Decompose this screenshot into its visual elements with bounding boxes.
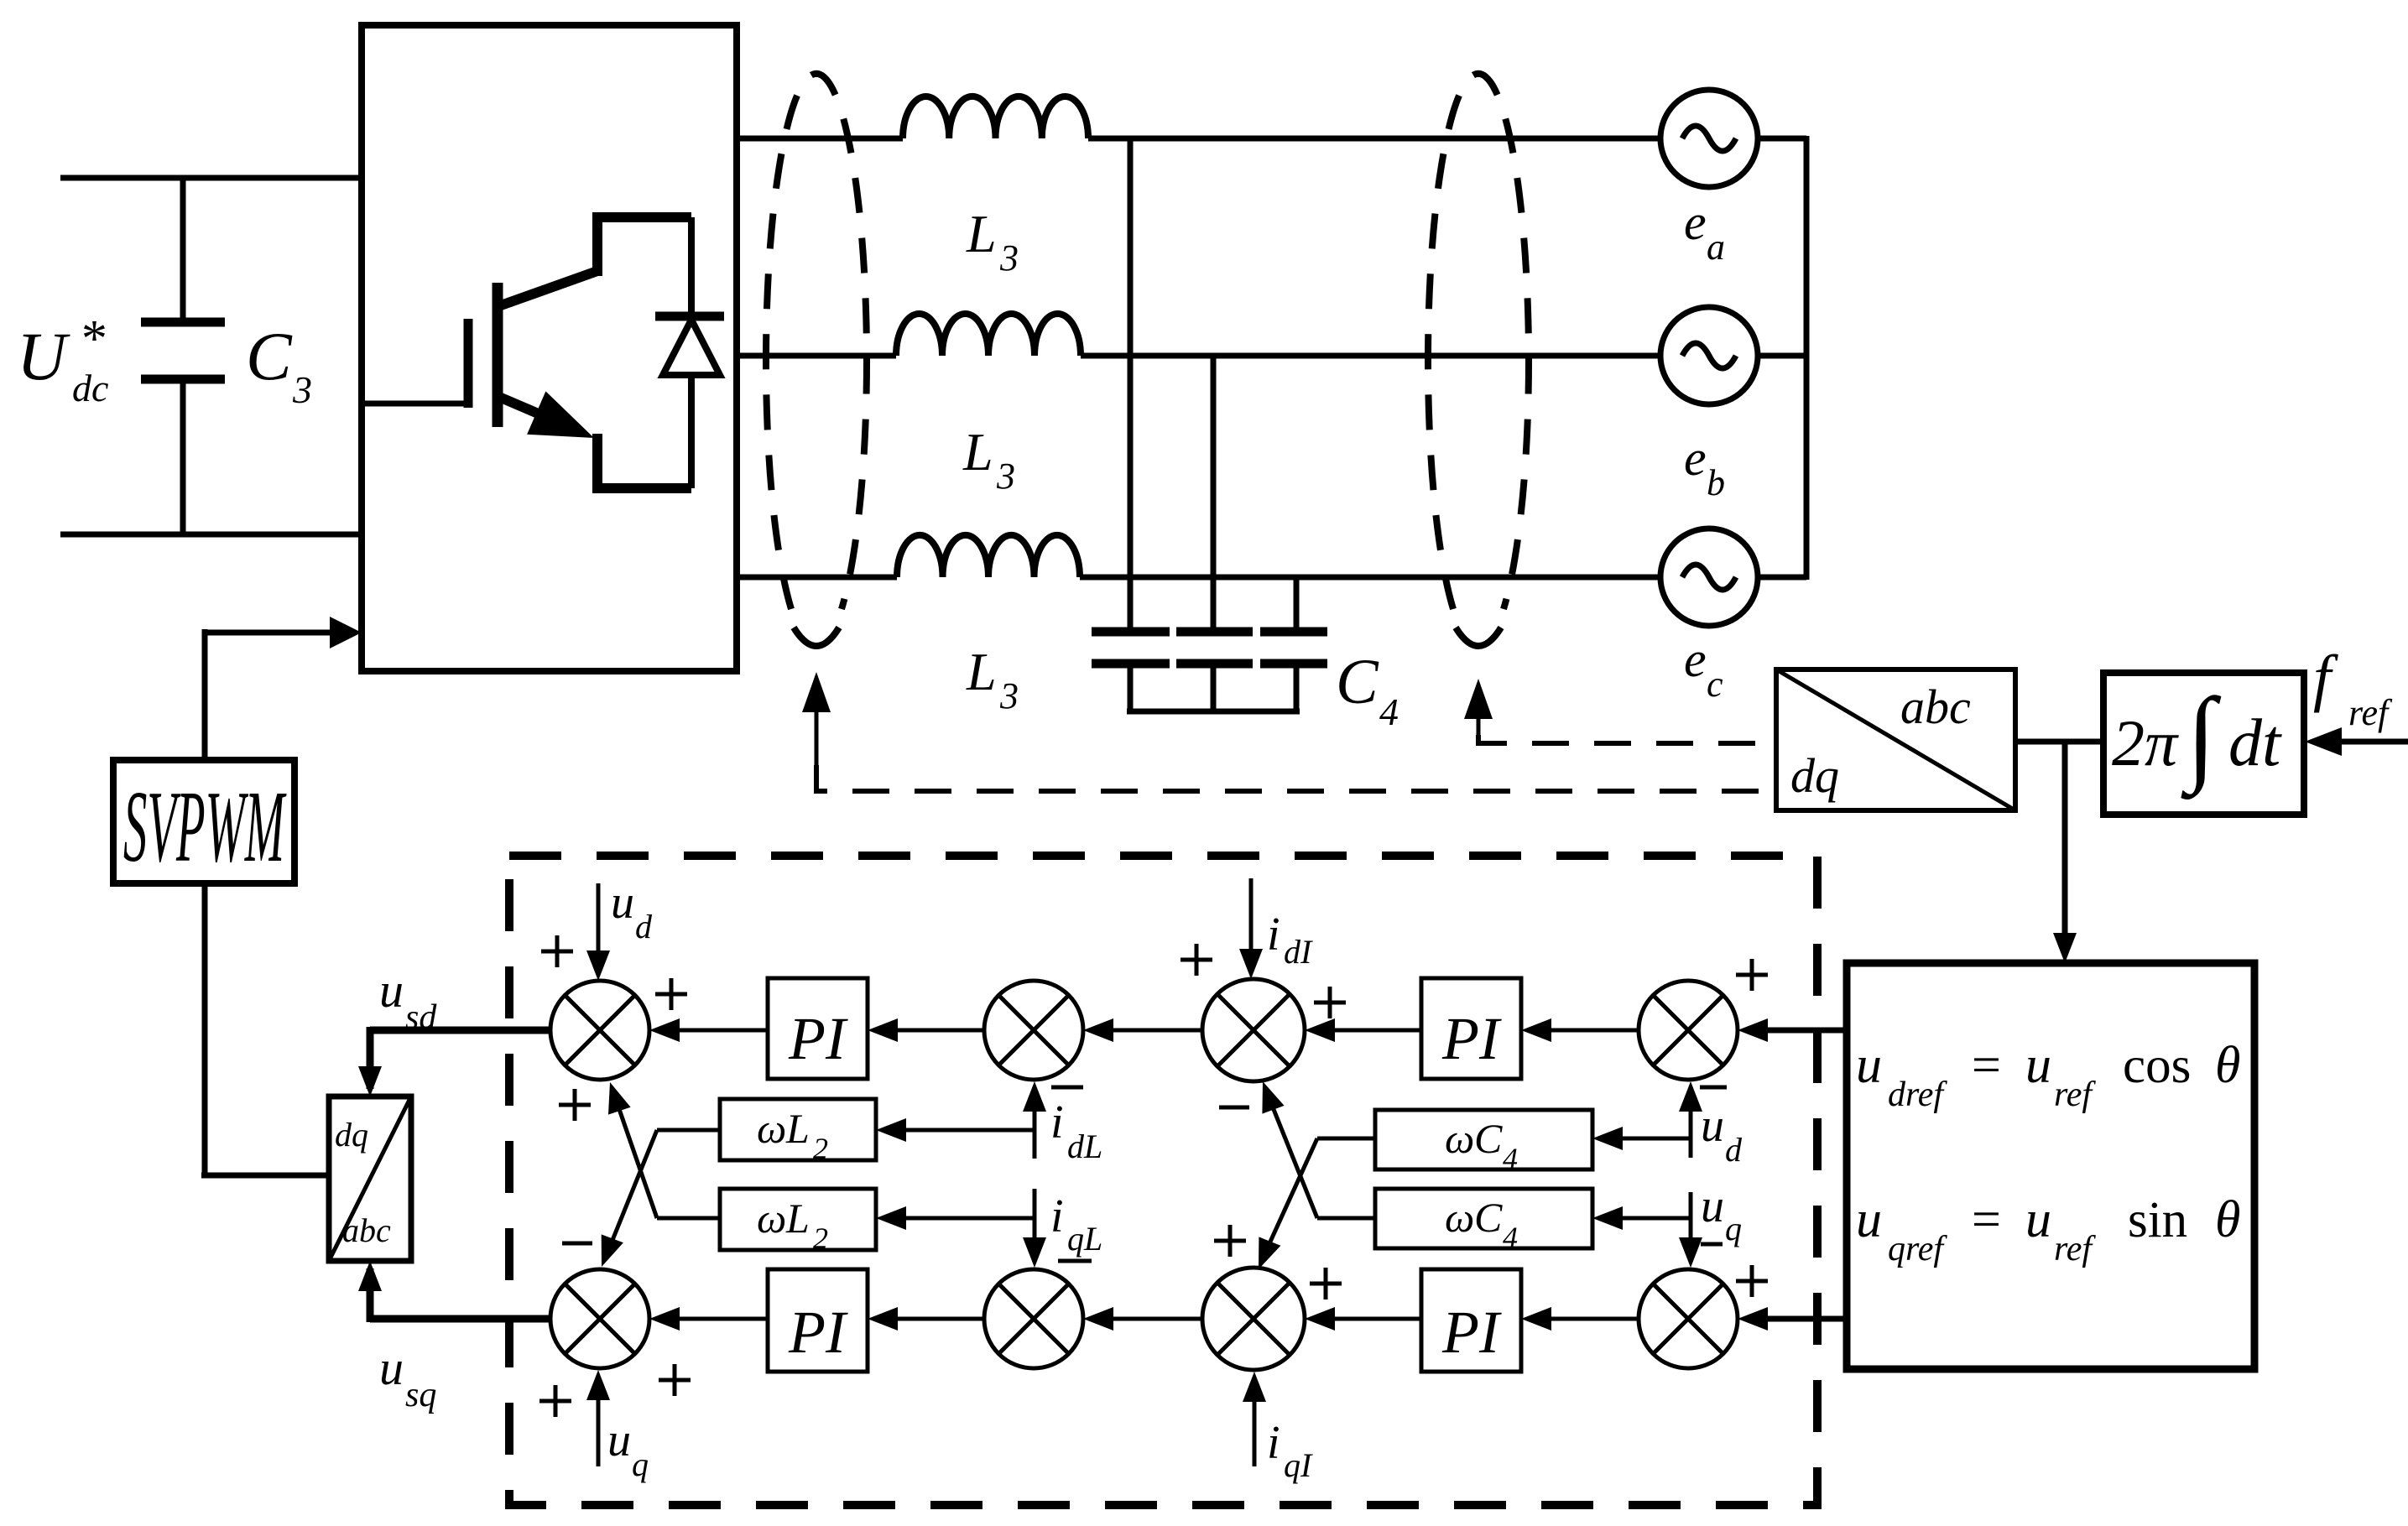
wire: C4 branch C (1294, 577, 1300, 628)
summing junction S6 (q current loop) (1202, 1268, 1305, 1370)
svg-text:L: L (966, 642, 997, 701)
block PI 2 (768, 1269, 868, 1372)
AC source eb (1660, 307, 1758, 404)
wire S5 to S3 (1093, 1029, 1202, 1033)
wire u_q to wC4 lower (1604, 1216, 1691, 1221)
svg-text:a: a (1707, 227, 1725, 268)
svg-text:∫: ∫ (2181, 677, 2222, 800)
wire ref box to S7 (1748, 1028, 1847, 1034)
dashed control boundary box (509, 856, 1817, 1505)
sign + (PI into S1) (655, 992, 687, 997)
svg-text:ω: ω (1445, 1194, 1474, 1241)
svg-text:q: q (632, 1445, 649, 1483)
IGBT Q1 collector (501, 271, 597, 305)
sign + (wC4 into S6) (1214, 1239, 1246, 1243)
svg-text:ref: ref (2054, 1075, 2096, 1114)
svg-text:u: u (2025, 1037, 2051, 1094)
svg-text:sd: sd (405, 998, 437, 1037)
wire wL2 lower to S1 (cross-coupling) (657, 1216, 720, 1221)
svg-text:C: C (1474, 1194, 1503, 1241)
sign + (u_d into S1) (541, 950, 573, 954)
sensor tip arc (794, 628, 839, 646)
svg-text:dc: dc (72, 367, 108, 409)
AC source ec (1660, 529, 1758, 626)
svg-text:L: L (962, 422, 993, 482)
dashed feedback wire to dq/abc (currents) (816, 765, 1776, 791)
diode D1 triangle (663, 320, 720, 375)
svg-text:θ: θ (2215, 1037, 2240, 1094)
svg-text:d: d (1725, 1131, 1743, 1169)
svg-text:dI: dI (1284, 933, 1313, 971)
sign - (i_dL overbar) (1051, 1086, 1083, 1090)
svg-text:e: e (1684, 430, 1707, 486)
wire wC4 lower to S5 (cross-coupling) (1317, 1216, 1375, 1221)
wire ref box to S8 (1748, 1316, 1847, 1322)
svg-text:i: i (1050, 1190, 1064, 1242)
arrow u_sd into dq/abc (358, 1066, 382, 1096)
IGBT Q1 gate bar (464, 319, 473, 408)
wire: source stubs and neutral bus (1758, 136, 1806, 142)
IGBT Q1 gate wire (362, 401, 465, 407)
svg-text:u: u (379, 963, 404, 1018)
wire: phase C to source (1080, 575, 1660, 581)
svg-text:L: L (785, 1195, 810, 1242)
block PI 1 (768, 978, 868, 1079)
svg-text:u: u (1701, 1180, 1724, 1232)
sensor output arrow 2 (1464, 679, 1493, 719)
summing junction S5 (d current loop) (1202, 979, 1305, 1081)
svg-text:u: u (1856, 1191, 1882, 1248)
sign + (u_dref into S7) (1736, 973, 1768, 977)
wire: phase A from inverter (737, 136, 903, 142)
block dq/abc (measurement transform) (1776, 669, 2015, 810)
block dq/abc (output transform) (329, 1096, 411, 1261)
summing junction S8 (u_qref sum) (1639, 1269, 1738, 1368)
wire S7 to PI3 (1533, 1029, 1639, 1033)
svg-text:u: u (2025, 1191, 2051, 1248)
wire u_sq (370, 1315, 550, 1323)
svg-text:3: 3 (999, 237, 1019, 279)
inductor L3 phase C (897, 535, 1080, 577)
summing junction S4 (q current ref) (984, 1269, 1083, 1368)
wire: C4 common bus (1127, 709, 1300, 715)
wire: theta to reference generator (2062, 742, 2068, 953)
svg-text:ref: ref (2054, 1230, 2096, 1268)
svg-text:2: 2 (813, 1221, 828, 1255)
svg-text:cos: cos (2123, 1038, 2191, 1094)
summing junction S7 (u_dref sum) (1639, 981, 1738, 1080)
block 2pi integrator (2103, 673, 2304, 815)
svg-text:qL: qL (1067, 1220, 1102, 1258)
arrow f_ref into integrator (2305, 727, 2342, 756)
svg-text:e: e (1684, 195, 1707, 250)
svg-text:3: 3 (996, 456, 1015, 497)
sensor tip arc 2 (1456, 628, 1501, 646)
wire: phase C from inverter (737, 575, 897, 581)
wire wC4 upper to S6 (cross-coupling) (1317, 1137, 1375, 1141)
wire i_dL to wL2 upper (886, 1128, 1035, 1133)
svg-text:=: = (1968, 1191, 2004, 1248)
IGBT Q1 emitter (501, 398, 542, 415)
wire u_sd (370, 1027, 550, 1034)
svg-text:ref: ref (2348, 692, 2393, 733)
svg-text:U: U (17, 318, 70, 394)
current sensor loop (dashed ellipse, inverter side) (766, 74, 867, 609)
sign - (wL2 into S2) (562, 1242, 592, 1246)
input i_qL arrow (1033, 1189, 1037, 1243)
wire S8 to PI4 (1533, 1317, 1639, 1321)
sign + (i_dI into S5) (1181, 958, 1212, 962)
wire u_d to wC4 upper (1604, 1137, 1691, 1141)
wire S4 to PI2 (878, 1317, 984, 1321)
svg-text:sq: sq (405, 1376, 436, 1414)
wire PI4 to S6 (1316, 1317, 1421, 1321)
sign - (i_qL underbar) (1058, 1259, 1092, 1263)
svg-text:C: C (1474, 1115, 1503, 1162)
inverter block U1 (362, 25, 737, 671)
block wL2 upper (720, 1099, 876, 1160)
sign + (PI into S2) (659, 1378, 691, 1383)
block PI 4 (1421, 1269, 1521, 1372)
input u_q arrow (right) (1689, 1192, 1693, 1243)
capacitor C4 bottom plates (1092, 659, 1170, 669)
summing junction S2 (u_sq) (550, 1269, 649, 1368)
svg-text:sin: sin (2128, 1192, 2187, 1248)
svg-text:qI: qI (1284, 1446, 1313, 1484)
wire PI3 to S5 (1316, 1029, 1421, 1033)
svg-text:C: C (246, 318, 293, 394)
svg-text:u: u (607, 1414, 631, 1466)
svg-text:b: b (1707, 462, 1725, 503)
svg-text:*: * (79, 310, 105, 367)
svg-text:ω: ω (1445, 1115, 1474, 1162)
sign + (PI3 into S5) (1314, 1001, 1346, 1005)
voltage sensor loop (dashed ellipse, grid side) (1428, 74, 1529, 609)
wire: phase B to source (1081, 353, 1660, 359)
arrow u_sq into dq/abc (358, 1261, 382, 1291)
wire: phase A to source (1088, 136, 1660, 142)
svg-text:d: d (635, 908, 653, 945)
wire S6 to S4 (1093, 1317, 1202, 1321)
svg-text:ω: ω (757, 1195, 786, 1242)
svg-text:PI: PI (788, 1005, 848, 1072)
svg-text:ω: ω (757, 1105, 786, 1152)
svg-text:=: = (1968, 1037, 2004, 1094)
input i_qI arrow (1253, 1381, 1257, 1466)
svg-text:u: u (611, 877, 634, 929)
block voltage reference generator (1847, 963, 2254, 1369)
input i_dI arrow (1249, 878, 1254, 970)
svg-text:4: 4 (1379, 690, 1399, 733)
wire i_qL to wL2 lower (886, 1216, 1035, 1221)
wire: f_ref input (2339, 739, 2408, 745)
wire: DC bus negative rail (60, 532, 362, 538)
svg-text:abc: abc (342, 1211, 391, 1249)
wire: C4 bottom leads (1128, 667, 1134, 711)
wire S3 to PI1 (878, 1029, 984, 1033)
sign + (u_qref into S8) (1736, 1279, 1768, 1284)
svg-text:abc: abc (1900, 680, 1971, 734)
svg-text:3: 3 (292, 368, 312, 411)
sign + (wL2 into S1) (559, 1103, 591, 1107)
svg-text:dq: dq (1790, 748, 1839, 803)
wire: capacitor C3 top lead (180, 178, 186, 319)
wire: C4 branch B (1211, 356, 1217, 628)
capacitor C4 top plates (1092, 628, 1170, 637)
wire: DC bus positive rail (60, 175, 362, 181)
block SVPWM (113, 760, 294, 883)
wire: capacitor C3 bottom lead (180, 383, 186, 534)
svg-text:3: 3 (999, 675, 1019, 716)
input i_dL arrow (1033, 1091, 1037, 1159)
svg-text:SVPWM: SVPWM (123, 770, 287, 883)
sign - (u_q into S8) (1701, 1242, 1723, 1247)
svg-text:dref: dref (1888, 1075, 1947, 1114)
inductor L3 phase A (903, 96, 1088, 138)
block PI 3 (1421, 978, 1521, 1079)
svg-text:c: c (1707, 664, 1723, 705)
svg-text:e: e (1684, 632, 1707, 687)
svg-text:dL: dL (1067, 1128, 1102, 1165)
svg-text:PI: PI (1441, 1299, 1502, 1366)
svg-text:i: i (1050, 1096, 1064, 1148)
svg-text:qref: qref (1888, 1230, 1947, 1268)
diode D1 anode lead (688, 375, 695, 488)
svg-text:q: q (1725, 1210, 1742, 1247)
block wC4 upper (1375, 1110, 1592, 1169)
wire wL2 upper to S2 (cross-coupling) (657, 1128, 720, 1133)
svg-text:θ: θ (2215, 1191, 2240, 1248)
wire PI1 to S1 (659, 1029, 768, 1033)
summing junction S3 (d current ref) (984, 981, 1083, 1080)
sign - (wC4 into S5) (1219, 1106, 1249, 1110)
wire: dq/abc to integrator (2015, 739, 2102, 745)
block wC4 lower (1375, 1189, 1592, 1248)
wire: phase B from inverter (737, 353, 896, 359)
svg-text:4: 4 (1503, 1221, 1518, 1254)
svg-text:4: 4 (1503, 1142, 1518, 1175)
arrow into inverter (330, 617, 362, 648)
input u_q arrow (left) (597, 1378, 601, 1466)
svg-text:L: L (966, 204, 997, 263)
wire: SVPWM to dq/abc transform (202, 883, 208, 1175)
svg-text:L: L (785, 1105, 810, 1152)
sensor output arrow (802, 672, 831, 712)
sign - (u_d into S7) (1700, 1086, 1727, 1090)
diode D1 cathode bar (655, 312, 724, 321)
svg-text:PI: PI (788, 1299, 848, 1366)
svg-text:PI: PI (1441, 1005, 1502, 1072)
svg-text:u: u (379, 1341, 404, 1395)
inductor L3 phase B (896, 314, 1081, 356)
svg-text:2π: 2π (2112, 706, 2179, 779)
sign + (u_q into S2) (539, 1399, 571, 1404)
dashed feedback wire to dq/abc (voltages) (1478, 735, 1776, 743)
svg-text:i: i (1267, 909, 1280, 961)
AC source ea (1660, 90, 1758, 187)
arrow into reference box (2053, 933, 2077, 963)
svg-text:dq: dq (335, 1116, 368, 1154)
diode D1 cathode lead (688, 217, 695, 318)
svg-text:2: 2 (813, 1132, 828, 1165)
wire: C4 branch A (1128, 138, 1134, 628)
input u_d arrow (right) (1689, 1091, 1693, 1158)
summing junction S1 (u_sd) (550, 981, 649, 1080)
wire PI2 to S2 (659, 1317, 768, 1321)
wire: SVPWM to inverter (205, 630, 352, 636)
sign + (PI4 into S6) (1310, 1282, 1342, 1286)
svg-text:C: C (1336, 647, 1379, 717)
IGBT Q1 body bar (493, 283, 503, 427)
svg-text:i: i (1267, 1417, 1280, 1469)
svg-text:u: u (1701, 1100, 1724, 1152)
block wL2 lower (720, 1189, 876, 1250)
capacitor C3 (141, 318, 225, 327)
svg-text:dt: dt (2228, 706, 2282, 780)
input u_d arrow (left) (597, 883, 601, 973)
svg-text:u: u (1856, 1037, 1882, 1094)
